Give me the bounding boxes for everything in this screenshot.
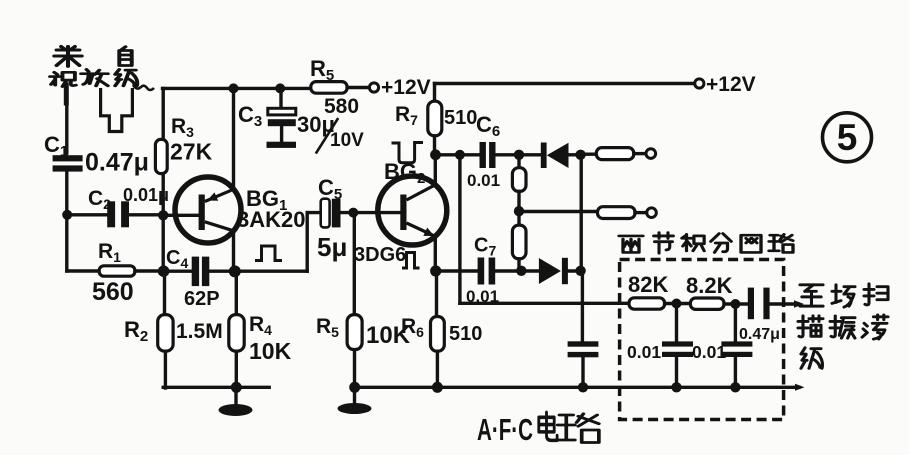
ground symbol left bbox=[219, 404, 253, 416]
output terminal 1 bbox=[646, 149, 656, 159]
wire to shunt cap 2 bbox=[734, 304, 737, 341]
transistor BG2 emitter arrow (NPN) bbox=[423, 228, 434, 236]
shunt capacitor 0.01 #2 bbox=[721, 341, 752, 357]
resistor R4 bbox=[229, 315, 244, 352]
capacitor C5 plus plate bbox=[321, 199, 330, 228]
svg-text:+12V: +12V bbox=[706, 73, 756, 96]
squiggle after input text bbox=[133, 85, 154, 90]
text 来 (input label) bbox=[54, 47, 81, 67]
svg-text:5μ: 5μ bbox=[317, 232, 347, 262]
junction D2 / filter cap bbox=[575, 266, 585, 276]
wire shunt cap 2 to rail bbox=[734, 357, 737, 387]
junction divider top bbox=[514, 150, 524, 160]
wire node A down to R1 bbox=[65, 215, 68, 271]
filter capacitor at output bbox=[568, 341, 599, 357]
divider resistor A bbox=[512, 168, 526, 192]
text 自 (input label) bbox=[119, 47, 131, 66]
wire D2 to node bbox=[568, 269, 581, 272]
diode D1 triangle bbox=[547, 143, 569, 168]
svg-text:62P: 62P bbox=[184, 288, 220, 310]
text 荡 (output label) bbox=[862, 315, 888, 339]
wire collector node to R4 bbox=[235, 271, 238, 314]
integrator feed riser bbox=[458, 155, 461, 303]
resistor R2 bbox=[158, 315, 173, 352]
junction R1/C4/R2 bbox=[158, 265, 170, 277]
wire input stub (bold) bbox=[64, 87, 69, 103]
capacitor C7 bbox=[478, 258, 496, 285]
diode D2 triangle bbox=[539, 258, 561, 284]
wire output resistor 2 to terminal bbox=[635, 211, 647, 214]
ground stem middle bbox=[353, 387, 356, 403]
wire BG2 emitter down bbox=[434, 237, 437, 272]
transistor BG2 base bar bbox=[400, 195, 406, 231]
pulse waveform at BG2 collector bbox=[392, 143, 424, 163]
text 级 (input label) bbox=[115, 69, 137, 85]
wire filter cap to ground rail bbox=[581, 357, 584, 387]
capacitor C1 bbox=[53, 155, 83, 171]
text 振 (output label) bbox=[830, 316, 855, 338]
diode D2 cathode bar bbox=[562, 258, 568, 284]
junction ground rail / R6 bbox=[432, 382, 443, 393]
arrowhead at output wire bbox=[794, 300, 804, 308]
junction BG1 collector / C4 / R4 bbox=[229, 265, 241, 277]
wire input to C1 bbox=[65, 84, 68, 153]
svg-text:+12V: +12V bbox=[381, 76, 431, 99]
output terminal 2 bbox=[647, 208, 657, 218]
wire collector node to C6 bbox=[436, 153, 480, 156]
wire C5 to BG2 base bbox=[341, 211, 401, 214]
junction 8.2K/0.47u bbox=[730, 299, 740, 309]
wire R6 to ground rail bbox=[436, 351, 439, 387]
svg-text:0.47μ: 0.47μ bbox=[85, 149, 149, 177]
shunt capacitor 0.01 #1 bbox=[662, 341, 693, 357]
resistor R5 10K bbox=[347, 315, 362, 350]
resistor R5 580 bbox=[311, 82, 347, 94]
wire divider to bottom row bbox=[517, 259, 520, 271]
resistor 82K bbox=[629, 298, 665, 309]
wire +12V to R7 bbox=[433, 84, 436, 102]
text 描 (output label) bbox=[798, 316, 823, 337]
wire node A to C2 bbox=[67, 213, 107, 216]
wire to output resistor 1 bbox=[581, 152, 597, 155]
transistor BG1 circle bbox=[175, 177, 241, 243]
wire R4 to ground rail bbox=[235, 351, 238, 388]
text 至 (output label) bbox=[800, 285, 823, 306]
junction R7 / collector bbox=[430, 149, 441, 160]
resistor 8.2K bbox=[690, 298, 724, 309]
wire emitter to R6 bbox=[435, 271, 438, 317]
svg-text:560: 560 bbox=[92, 278, 134, 306]
text 路 (caption) bbox=[558, 414, 599, 443]
ground rail right bbox=[355, 386, 800, 389]
wire BG1 collector down bbox=[232, 231, 235, 271]
wire BG2 collector up bbox=[434, 155, 437, 185]
arrowhead at ground rail end bbox=[795, 384, 805, 391]
wire C7 to divider bottom bbox=[495, 269, 521, 272]
wire junction to R5 10K bbox=[353, 213, 356, 315]
ground bar under C3 bbox=[267, 142, 297, 148]
transistor BG1 collector lead bbox=[205, 222, 234, 231]
wire to diode D2 bbox=[521, 269, 539, 272]
wire +12V rail right bbox=[435, 82, 695, 85]
junction ground rail / R4 bbox=[231, 382, 242, 393]
base node junction BG1 bbox=[158, 210, 168, 220]
text 网 (title) bbox=[741, 235, 761, 252]
text 分 (title) bbox=[711, 234, 731, 253]
wire to shunt cap 1 bbox=[675, 304, 678, 342]
wire divider middle bbox=[517, 191, 520, 225]
wire R5 to +12V terminal bbox=[347, 86, 369, 89]
junction output node 1 bbox=[575, 150, 585, 160]
wire rail to C3 bbox=[279, 88, 282, 108]
input sync pulse waveform bbox=[101, 88, 133, 132]
junction ground rail / R5 bbox=[349, 382, 360, 393]
slash in C3 value bbox=[316, 118, 338, 154]
capacitor 0.47u bbox=[748, 288, 770, 320]
wire 8.2K to 0.47u bbox=[724, 302, 748, 305]
transistor BG1 emitter arrow (PNP) bbox=[207, 192, 218, 200]
svg-text:10K: 10K bbox=[249, 338, 292, 364]
ground rail left bbox=[163, 386, 269, 389]
wire D2 node to filter cap bbox=[581, 271, 584, 342]
wire D1 to output node 1 bbox=[569, 153, 581, 156]
junction ground rail / filter cap bbox=[578, 382, 588, 392]
wire R1 to base column bbox=[135, 269, 163, 272]
capacitor C3 plus plate bbox=[268, 108, 296, 115]
ground stem left bbox=[234, 387, 237, 404]
text 电 (caption) bbox=[539, 412, 557, 440]
ground symbol middle bbox=[338, 403, 372, 414]
wire to diode D1 bbox=[519, 153, 541, 156]
junction rail / shunt cap 2 bbox=[730, 382, 740, 392]
svg-text:82K: 82K bbox=[628, 272, 668, 297]
wire R3 to base node bbox=[161, 174, 164, 215]
wire +12V rail left section bbox=[163, 87, 312, 90]
wire shunt cap 1 to rail bbox=[675, 357, 678, 387]
text 场 (output label) bbox=[832, 285, 855, 307]
resistor R7 bbox=[428, 101, 442, 136]
svg-text:3DG6: 3DG6 bbox=[354, 244, 406, 266]
junction rail / C3 bbox=[275, 83, 285, 93]
wire collector node to C5 riser bbox=[235, 270, 307, 273]
svg-text:3AK20: 3AK20 bbox=[237, 207, 305, 232]
wire to C5 bbox=[307, 211, 321, 214]
svg-text:0.01: 0.01 bbox=[692, 342, 726, 362]
wire base node to BG1 base bbox=[163, 214, 198, 217]
wire emitter node to C7 bbox=[436, 269, 478, 272]
junction 82K/8.2K bbox=[672, 299, 682, 309]
junction divider mid bbox=[514, 206, 524, 216]
terminal +12V left bbox=[369, 83, 378, 92]
wire C3 to ground bar bbox=[280, 126, 283, 142]
pulse waveform at BG2 emitter bbox=[402, 253, 420, 269]
svg-text:10V: 10V bbox=[330, 130, 364, 151]
wire C4 to collector node bbox=[209, 270, 233, 273]
wire C6 to divider node bbox=[496, 153, 519, 156]
junction integrator feed bbox=[455, 150, 465, 160]
output resistor 2 bbox=[598, 207, 636, 219]
wire base to C4 bbox=[164, 270, 192, 273]
wire R7 to collector node bbox=[433, 136, 436, 155]
wire output node1 down to D2 node bbox=[580, 155, 583, 271]
svg-text:510: 510 bbox=[444, 107, 477, 129]
text 扫 (output label) bbox=[864, 284, 888, 305]
text 级 (output label) bbox=[801, 348, 822, 369]
resistor R3 bbox=[155, 139, 167, 173]
node A junction bbox=[62, 210, 72, 220]
svg-text:8.2K: 8.2K bbox=[686, 273, 733, 298]
dashed box (integration network) bbox=[620, 260, 784, 420]
wire to divider resistor A bbox=[517, 155, 520, 168]
wire top rail to R3 bbox=[161, 88, 164, 139]
svg-text:27K: 27K bbox=[170, 139, 213, 165]
terminal +12V right bbox=[695, 79, 704, 88]
text 视 (input label) bbox=[50, 72, 76, 86]
junction emitter / C7 / R6 bbox=[430, 265, 441, 276]
capacitor C2 bbox=[107, 201, 129, 227]
figure number circle bbox=[823, 113, 872, 162]
wire output resistor 1 to terminal bbox=[634, 152, 646, 155]
capacitor C5 minus plate bbox=[332, 199, 341, 228]
junction divider bottom bbox=[516, 266, 526, 276]
text 积 (title) bbox=[682, 234, 704, 251]
resistor R6 bbox=[431, 317, 445, 352]
wire C2 to base node bbox=[129, 213, 163, 216]
diode D1 cathode bar bbox=[541, 143, 547, 169]
wire C1 to node A bbox=[65, 172, 68, 215]
integrator feed to 82K bbox=[460, 302, 629, 305]
capacitor C6 bbox=[480, 142, 496, 168]
transistor BG1 base bar bbox=[199, 195, 205, 231]
wire 82K to 8.2K bbox=[665, 302, 691, 305]
svg-text:510: 510 bbox=[449, 323, 482, 345]
transistor BG2 collector lead bbox=[407, 185, 436, 200]
transistor BG2 circle bbox=[378, 176, 447, 245]
resistor R1 bbox=[99, 266, 135, 276]
transistor BG1 emitter lead bbox=[205, 189, 234, 201]
junction rail / BG1 emitter bbox=[229, 83, 239, 93]
junction C5 / R5 bottom / base bbox=[348, 208, 358, 218]
wire 0.47u to output bbox=[770, 302, 798, 305]
wire divider mid to output resistor 2 bbox=[519, 210, 598, 213]
wire to R1 bbox=[67, 269, 99, 272]
transistor BG2 emitter lead bbox=[407, 223, 436, 237]
text 两 (title) bbox=[619, 236, 643, 253]
divider resistor B bbox=[512, 225, 526, 259]
wire down to R2 bbox=[163, 271, 166, 314]
svg-text:A·F·C: A·F·C bbox=[477, 412, 533, 447]
svg-text:0.01: 0.01 bbox=[467, 171, 500, 190]
svg-text:0.01: 0.01 bbox=[627, 342, 661, 362]
wire base node down bbox=[161, 215, 164, 271]
wire R2 to ground rail bbox=[164, 351, 167, 388]
text 节 (title) bbox=[654, 233, 674, 254]
svg-text:5: 5 bbox=[837, 117, 858, 158]
text 放 (input label) bbox=[81, 69, 108, 85]
wire R5 to ground rail bbox=[353, 350, 356, 388]
svg-text:1.5M: 1.5M bbox=[176, 320, 223, 343]
capacitor C3 minus plate bbox=[268, 119, 296, 126]
pulse waveform at BG1 collector bbox=[255, 246, 282, 261]
capacitor C4 62P bbox=[192, 257, 210, 287]
riser to C5 bbox=[306, 213, 309, 272]
wire BG1 emitter to rail bbox=[232, 88, 235, 189]
output resistor 1 bbox=[596, 148, 634, 160]
text 路 (title) bbox=[769, 234, 793, 252]
junction rail / shunt cap 1 bbox=[671, 382, 681, 392]
svg-text:0.47μ: 0.47μ bbox=[739, 326, 780, 343]
